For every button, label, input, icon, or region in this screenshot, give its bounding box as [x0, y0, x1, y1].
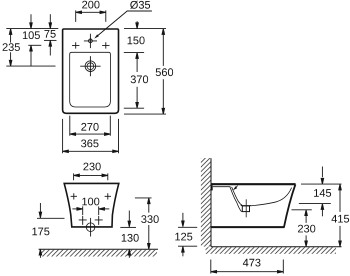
- label 105: [23, 31, 40, 39]
- dimension 230 (front top): [74, 173, 108, 180]
- lower left hole cross: [79, 216, 87, 225]
- extension line: side top edge level, right: [301, 183, 342, 185]
- extension line: upper holes level, right of front view: [135, 197, 152, 199]
- dimension 130 (front right): [120, 211, 136, 258]
- label 75: [44, 30, 55, 38]
- right fixing hole cross: [102, 42, 109, 48]
- bowl rim (plan): [70, 52, 111, 107]
- dimension 100 (front): [72, 206, 109, 215]
- floor line (side view): [211, 246, 342, 248]
- label 230 front: [83, 163, 100, 171]
- dimension 125 (left of wall): [178, 213, 197, 256]
- bidet front slanted edge (side): [284, 184, 295, 227]
- floor hatching (side view): [206, 247, 337, 254]
- label 100: [82, 198, 99, 206]
- label diameter 35: [130, 1, 150, 9]
- leader for Ø35: [94, 11, 152, 39]
- label 150: [128, 37, 145, 45]
- dimension 330 (front far right): [148, 198, 151, 249]
- wall face line: [210, 158, 212, 247]
- dimension 230 (side): [305, 210, 308, 247]
- faucet hole crosshair: [84, 34, 97, 48]
- bidet top edge (side): [211, 183, 296, 185]
- dimension 560 (right outer): [162, 29, 165, 115]
- extension line: bowl bottom level, right side: [124, 107, 144, 109]
- label 365: [81, 140, 99, 148]
- extension line: bowl top level, right side: [124, 52, 144, 54]
- extension line: top edge level, right side: [124, 28, 166, 30]
- label 270: [81, 123, 98, 131]
- dimension 370 (right): [136, 53, 139, 109]
- drain trap box (side): [241, 206, 252, 212]
- left fixing hole cross: [72, 42, 79, 48]
- extension line: top edge level, left side: [6, 28, 58, 30]
- dimension 200 (top): [76, 10, 106, 22]
- dimension 473 (side bottom): [211, 260, 283, 274]
- dimension 415 (side outer right): [339, 184, 342, 247]
- dimension 105 (left): [28, 14, 41, 66]
- rim inner line (side): [213, 186, 231, 188]
- bidet body outline (plan): [63, 29, 119, 113]
- drain centerline (side): [245, 199, 247, 217]
- wall mounting tab: [211, 185, 213, 190]
- floor hatching (front view): [40, 250, 158, 257]
- dimension 365 (bottom outer): [63, 119, 119, 153]
- label 415: [332, 215, 350, 223]
- dimension 75 (left): [44, 14, 57, 55]
- label 330: [141, 215, 159, 223]
- label 473: [243, 259, 261, 267]
- extension line: drain level, left side: [6, 65, 55, 67]
- floor line (front view): [39, 248, 158, 250]
- label 230 side: [298, 225, 315, 233]
- spout tick arrow on rim: [233, 186, 238, 191]
- extension line: trap level, side: [292, 209, 312, 211]
- bidet bottom edge (side): [211, 226, 284, 228]
- bowl front wall inner curve (side): [232, 187, 243, 206]
- upper right wall-fixing hole cross: [105, 193, 111, 199]
- upper left wall-fixing hole cross: [71, 193, 77, 199]
- label 175: [32, 228, 49, 236]
- wall hatching: [201, 158, 211, 247]
- bidet body outline (front): [64, 183, 119, 227]
- label 130: [122, 234, 139, 242]
- drain crosshair: [80, 56, 100, 76]
- bowl front wall outer curve (side): [230, 187, 242, 212]
- label 125: [175, 233, 192, 241]
- dimension 175 (front left): [37, 203, 65, 258]
- drain crosshair (front): [86, 218, 95, 237]
- dimension 145 (side): [299, 167, 331, 217]
- extension line: body bottom level, right side: [124, 113, 166, 115]
- label 200: [82, 1, 99, 9]
- bowl back slope line (side): [250, 188, 291, 206]
- label 145: [314, 189, 331, 197]
- label 235: [3, 43, 20, 51]
- label 370: [131, 75, 149, 83]
- dimension 235 (left outer): [9, 29, 12, 67]
- dimension 150 (right): [136, 21, 139, 28]
- lower right hole cross: [95, 216, 103, 225]
- dimension 270 (bottom inner): [70, 116, 111, 136]
- label 560: [156, 68, 173, 76]
